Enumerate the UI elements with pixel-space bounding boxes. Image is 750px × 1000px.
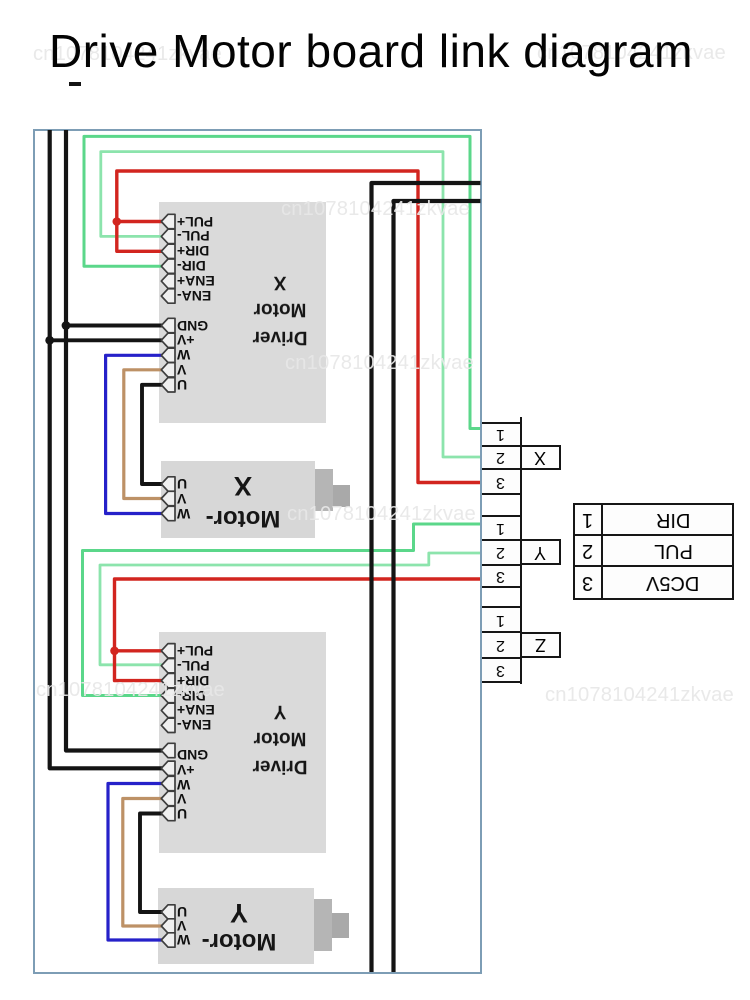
watermark [36, 679, 225, 702]
connector column X [481, 422, 522, 447]
label DIR+ driver Y [177, 673, 219, 689]
label ENA- driver Y [177, 717, 219, 733]
motor Y shaft connector [314, 899, 332, 951]
wire blue W driver X to motor X [106, 355, 163, 513]
label ENA- driver X [177, 288, 219, 304]
driver Y pin +V [161, 761, 175, 775]
driver Y pin DIR+ [161, 673, 175, 687]
driver X title [240, 268, 320, 351]
label DIR+ driver X [177, 243, 219, 259]
junction dot red driver Y [110, 647, 119, 656]
label ENA+ driver X [177, 273, 219, 289]
motor X pin W [161, 506, 175, 520]
label +V driver X [177, 332, 219, 348]
bus black right line 1 [372, 183, 481, 972]
driver box X [159, 202, 326, 423]
label U motor X [177, 476, 193, 492]
label V driver X [177, 362, 219, 378]
driver Y pin ENA+ [161, 703, 175, 717]
bus black GND vertical line B [66, 130, 163, 751]
connector column Z [481, 606, 522, 633]
label X [520, 445, 561, 470]
driver Y title [240, 697, 320, 780]
driver X pin +V [161, 333, 175, 347]
driver Y pin DIR- [161, 688, 175, 702]
wire green DIR- driver X to connector X1 [84, 136, 481, 428]
watermark [537, 42, 726, 65]
label PUL- driver X [177, 228, 219, 244]
motor X pin U [161, 477, 175, 491]
label V driver Y [177, 791, 219, 807]
driver X pin ENA+ [161, 274, 175, 288]
label PUL+ driver X [177, 214, 219, 230]
label W driver Y [177, 777, 219, 793]
junction dot black +V [45, 336, 54, 345]
wire tan V driver Y to motor Y [123, 799, 163, 927]
driver Y pin W [161, 776, 175, 790]
connector column right edge line [520, 417, 522, 684]
label PUL- driver Y [177, 658, 219, 674]
label ENA+ driver Y [177, 702, 219, 718]
wire black U driver Y to motor Y [140, 814, 163, 913]
motor X pin V [161, 491, 175, 505]
driver Y pin V [161, 791, 175, 805]
wire red PUL+ driver X to connector X3 [117, 171, 481, 483]
bus black +V vertical line A [50, 130, 163, 768]
wire red PUL+ driver Y to connector Y3 [115, 579, 482, 651]
label GND driver X [177, 318, 219, 334]
driver Y pin PUL+ [161, 644, 175, 658]
driver X pin PUL+ [161, 214, 175, 228]
driver box Y [159, 632, 326, 853]
driver Y pin U [161, 806, 175, 820]
wire green DIR- driver Y to connector Y1 [83, 524, 482, 696]
driver Y pin PUL- [161, 659, 175, 673]
pin terminals [161, 214, 175, 947]
label U motor Y [177, 904, 193, 920]
watermark [545, 684, 734, 707]
wire black +V tap to driver X [50, 338, 163, 342]
label Y [520, 539, 561, 565]
label W driver X [177, 347, 219, 363]
label U driver X [177, 377, 219, 393]
driver X pin DIR- [161, 259, 175, 273]
watermark [281, 198, 470, 221]
motor Y pin U [161, 905, 175, 919]
driver X pin GND [161, 318, 175, 332]
driver X pin ENA- [161, 289, 175, 303]
motor X shaft connector [315, 469, 333, 511]
wire blue W driver Y to motor Y [108, 784, 163, 941]
motor X title [193, 468, 293, 535]
wire red branch to DIR+ driver X [117, 222, 163, 252]
watermark [33, 43, 222, 66]
driver X pin U [161, 378, 175, 392]
label V motor X [177, 491, 193, 507]
driver X pin PUL- [161, 229, 175, 243]
driver X pin V [161, 363, 175, 377]
motor Y title [189, 897, 289, 955]
watermark [287, 503, 476, 526]
label DIR- driver X [177, 258, 219, 274]
frame border [33, 129, 482, 974]
wire green PUL- driver X to connector X2 [101, 152, 481, 457]
driver X pin DIR+ [161, 244, 175, 258]
motor box Y [158, 888, 314, 964]
driver Y pin ENA- [161, 718, 175, 732]
label W motor Y [177, 932, 193, 948]
junction dot black GND [62, 321, 71, 330]
label Z [520, 632, 561, 658]
motor box X [161, 461, 315, 538]
label +V driver Y [177, 762, 219, 778]
frame border right segment over connector cells [480, 416, 482, 684]
wire red branch to DIR+ driver Y [115, 651, 164, 681]
bus black right line 2 [394, 201, 481, 972]
wire black GND tap to driver X [66, 324, 163, 328]
connector column Y [481, 515, 522, 542]
driver Y pin GND [161, 743, 175, 757]
label GND driver Y [177, 747, 219, 763]
label PUL+ driver Y [177, 643, 219, 659]
driver X pin W [161, 348, 175, 362]
legend table [573, 503, 603, 536]
motor Y pin W [161, 933, 175, 947]
junction dot red driver X [113, 217, 122, 226]
title artifact dash [69, 82, 81, 86]
label W motor X [177, 506, 193, 522]
label V motor Y [177, 918, 193, 934]
watermark [285, 352, 474, 375]
wire green PUL- driver Y to connector Y2 [100, 553, 481, 665]
label DIR- driver Y [177, 688, 219, 704]
motor Y pin V [161, 919, 175, 933]
wire tan V driver X to motor X [124, 370, 163, 499]
label U driver Y [177, 806, 219, 822]
title [49, 24, 693, 78]
wire black U driver X to motor X [142, 385, 163, 484]
